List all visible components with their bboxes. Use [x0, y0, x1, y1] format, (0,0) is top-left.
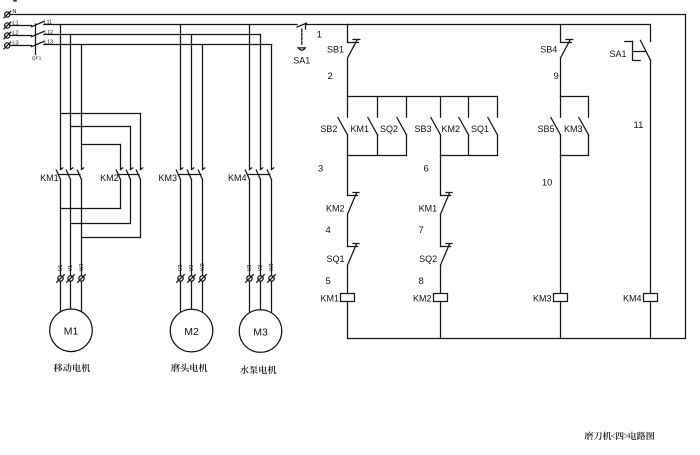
wire L11 to KM1 pole1 [60, 25, 62, 170]
contact KM1 interlock NC [419, 193, 452, 215]
wire L2 [10, 35, 32, 37]
switch QF1 [32, 22, 44, 62]
wire L1 [10, 25, 32, 27]
svg-text:KM2: KM2 [100, 173, 119, 183]
contactor KM3 main contacts [158, 168, 204, 183]
label motor M3 name [240, 365, 276, 374]
svg-text:7: 7 [419, 225, 424, 236]
node 8 [419, 265, 441, 293]
wire L3 [10, 45, 32, 47]
wire bus top group C [561, 96, 589, 98]
motor terminal V3 [257, 265, 265, 282]
contact KM2 latch NO [441, 97, 468, 156]
svg-text:L12: L12 [44, 30, 53, 36]
svg-text:V2: V2 [189, 265, 195, 271]
top edge artifact mark [13, 0, 17, 2]
switch SQ1 limit NO [471, 97, 498, 156]
wire rail C top [560, 25, 562, 43]
svg-text:V1: V1 [68, 265, 74, 271]
node 11 [634, 60, 651, 293]
svg-text:4: 4 [326, 225, 331, 236]
wire merge loop KM2 pole1 to phase U [61, 180, 121, 209]
wire bus bottom group B [441, 155, 498, 157]
switch SQ2 limit NO [380, 97, 407, 156]
motor terminal U1 [57, 264, 65, 282]
wire L12 [44, 30, 261, 36]
wire crossover loop L13 to KM2 pole1 [82, 145, 121, 170]
node 7 [419, 214, 441, 246]
svg-text:SB1: SB1 [327, 45, 344, 55]
svg-text:W1: W1 [79, 263, 85, 271]
node 9 [554, 58, 561, 97]
coil KM1 [320, 294, 354, 339]
motor terminal V1 [67, 265, 75, 282]
button SB4 NC stop [540, 40, 573, 59]
coil KM4 [623, 294, 658, 339]
svg-text:10: 10 [542, 178, 553, 189]
contact KM2 interlock NC [326, 193, 359, 215]
label drawing title [585, 432, 654, 440]
wire L11 to KM3 pole1 [180, 25, 182, 170]
terminal L3 [4, 40, 19, 49]
svg-text:KM3: KM3 [533, 294, 552, 304]
node 6 [424, 156, 441, 196]
wire KM4 outputs to motor M3 [250, 180, 272, 317]
svg-text:11: 11 [634, 120, 644, 131]
svg-text:W3: W3 [269, 263, 275, 271]
svg-text:SB5: SB5 [537, 124, 554, 134]
svg-text:KM1: KM1 [320, 294, 339, 304]
svg-text:L13: L13 [44, 40, 53, 46]
contactor KM1 main contacts [40, 168, 84, 183]
button SB2 NO start [320, 97, 347, 156]
wire bus bottom group C [561, 155, 589, 157]
node 2 [328, 58, 348, 97]
switch SQ1 limit NC [326, 244, 359, 266]
label motor M2 name [171, 363, 207, 372]
coil KM3 [533, 294, 568, 339]
wire KM1 outputs to motor M1 [61, 180, 82, 317]
node 5 [326, 265, 348, 293]
svg-text:KM1: KM1 [350, 124, 369, 134]
contact KM1 latch NO [350, 97, 377, 156]
svg-text:QF1: QF1 [32, 56, 42, 62]
button SB1 NC stop [327, 40, 360, 59]
wire rail D top [650, 25, 652, 42]
motor terminal W1 [78, 263, 86, 282]
terminal L1 [4, 20, 19, 29]
wire L11 [44, 19, 297, 25]
svg-text:KM1: KM1 [419, 204, 438, 214]
svg-text:M3: M3 [253, 326, 268, 338]
svg-text:M2: M2 [184, 326, 199, 338]
wire N bus [10, 14, 686, 16]
motor terminal W2 [199, 263, 207, 282]
motor terminal W3 [268, 263, 276, 282]
motor M3 [239, 310, 282, 353]
wire KM3 outputs to motor M2 [181, 180, 203, 317]
svg-text:SQ2: SQ2 [419, 254, 437, 264]
wire L12 to KM4 pole2 [260, 35, 262, 170]
wire L13 to KM1 pole3 [81, 45, 83, 170]
wire crossover loop L12 to KM2 pole2 [71, 127, 131, 170]
svg-text:W2: W2 [200, 263, 206, 271]
wire L11 to KM4 pole1 [249, 25, 251, 170]
terminal N [4, 9, 17, 18]
svg-text:SB4: SB4 [540, 45, 557, 55]
motor terminal U2 [177, 264, 185, 282]
wire rail A top [347, 25, 349, 43]
switch SA1 selector NO [609, 40, 650, 60]
wire merge loop KM2 pole2 to phase V [71, 180, 131, 224]
contact KM3 latch NO [564, 97, 589, 156]
wire L13 [44, 40, 272, 46]
wire merge loop KM2 pole3 to phase W [82, 180, 141, 238]
wire 1 [306, 24, 348, 26]
svg-text:L11: L11 [44, 19, 52, 25]
switch SQ2 limit NC [419, 244, 452, 266]
svg-text:9: 9 [554, 71, 559, 82]
svg-text:V3: V3 [258, 265, 264, 271]
wire control bottom rail [348, 338, 686, 340]
button SB3 NO start [414, 97, 440, 156]
motor terminal V2 [188, 265, 196, 282]
wire N right rail [685, 15, 687, 339]
svg-text:SQ1: SQ1 [471, 124, 489, 134]
wire L13 to KM4 pole3 [271, 45, 273, 170]
wire crossover loop L11 to KM2 pole3 [61, 114, 141, 170]
switch SA1 pull-operator [293, 23, 310, 65]
wire control top rail [348, 24, 651, 26]
svg-text:SA1: SA1 [609, 49, 626, 59]
svg-text:KM4: KM4 [623, 294, 642, 304]
svg-text:SQ1: SQ1 [326, 254, 344, 264]
node 3 [318, 156, 348, 196]
svg-text:SB3: SB3 [414, 124, 431, 134]
svg-text:KM4: KM4 [228, 173, 247, 183]
svg-text:KM2: KM2 [441, 124, 460, 134]
svg-text:5: 5 [326, 276, 331, 287]
wire L12 to KM1 pole2 [70, 35, 72, 170]
svg-text:KM1: KM1 [40, 173, 59, 183]
svg-text:U3: U3 [247, 264, 253, 271]
terminal L2 [4, 30, 19, 39]
motor M1 [50, 309, 93, 352]
svg-text:U1: U1 [58, 264, 64, 271]
svg-text:6: 6 [424, 164, 429, 175]
label motor M1 name [54, 363, 90, 372]
svg-text:KM3: KM3 [564, 124, 583, 134]
wire L13 to KM3 pole3 [202, 45, 204, 170]
coil KM2 [413, 294, 448, 339]
svg-text:KM2: KM2 [326, 204, 345, 214]
node 10 [542, 156, 561, 294]
wire bus bottom group A [348, 155, 407, 157]
svg-text:2: 2 [328, 71, 333, 82]
contactor KM2 main contacts [100, 168, 143, 183]
motor M2 [170, 309, 213, 352]
svg-text:1: 1 [317, 30, 322, 41]
svg-text:M1: M1 [64, 326, 79, 338]
node 4 [326, 214, 348, 246]
button SB5 NO start [537, 97, 560, 156]
svg-text:SB2: SB2 [320, 124, 337, 134]
wire L12 to KM3 pole2 [191, 35, 193, 170]
svg-text:3: 3 [318, 164, 323, 175]
svg-text:U2: U2 [178, 264, 184, 271]
svg-text:SQ2: SQ2 [380, 124, 398, 134]
wire parallel bus top [348, 96, 498, 98]
motor terminal U3 [246, 264, 254, 282]
svg-text:SA1: SA1 [293, 56, 310, 66]
contactor KM4 main contacts [228, 168, 274, 183]
svg-text:KM3: KM3 [158, 173, 177, 183]
svg-text:8: 8 [419, 276, 424, 287]
svg-text:KM2: KM2 [413, 294, 432, 304]
node 1 [317, 30, 322, 41]
